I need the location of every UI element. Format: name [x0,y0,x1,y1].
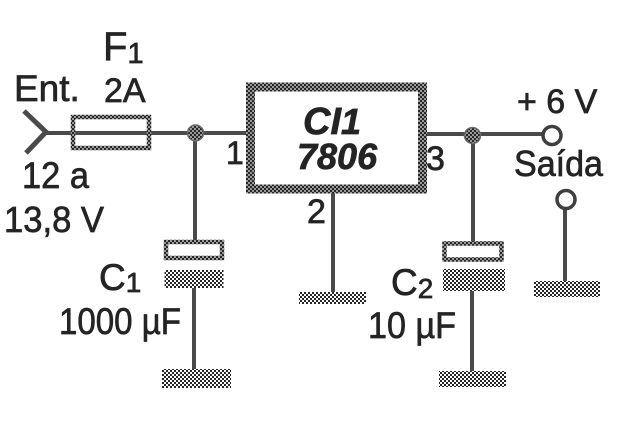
svg-text:13,8 V: 13,8 V [4,199,104,240]
svg-text:7806: 7806 [297,136,378,177]
svg-text:1: 1 [226,135,244,171]
svg-text:12 a: 12 a [22,155,89,196]
svg-text:2: 2 [307,193,326,231]
svg-text:+ 6 V: + 6 V [517,83,598,121]
svg-text:Ent.: Ent. [14,68,80,109]
svg-text:10 µF: 10 µF [368,305,456,346]
svg-text:Saída: Saída [514,143,604,184]
svg-text:1000 µF: 1000 µF [59,301,181,342]
svg-text:2A: 2A [104,72,146,110]
svg-text:3: 3 [426,140,445,178]
